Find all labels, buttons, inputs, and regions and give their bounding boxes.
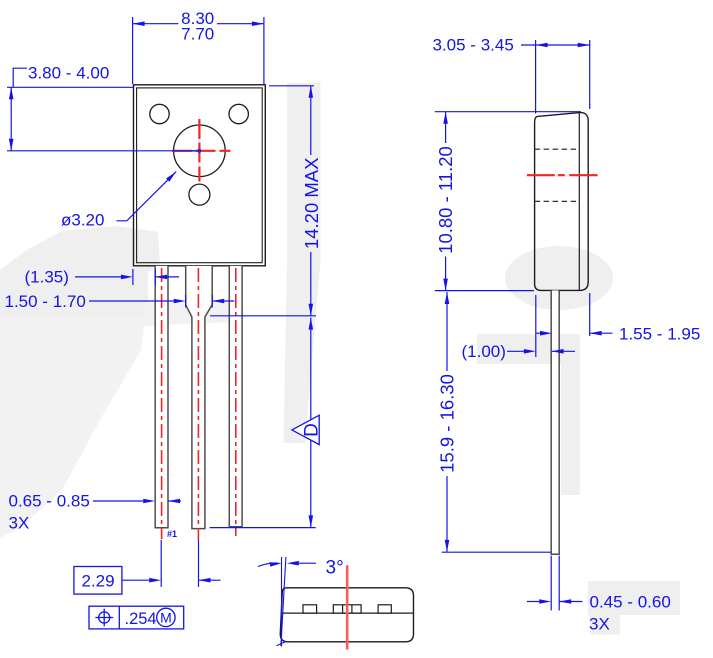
red centerline lead 3 <box>235 268 237 536</box>
dimension 3.80-4.00 hole position <box>7 64 134 151</box>
dimension (1.35) lead offset <box>25 267 180 286</box>
svg-text:(1.00): (1.00) <box>462 342 506 361</box>
svg-text:#1: #1 <box>167 529 177 539</box>
dimension 0.45-0.60 lead width 3X <box>527 556 671 634</box>
side view hidden line upper <box>535 148 580 150</box>
lead 3 (right) <box>229 266 242 527</box>
svg-text:1.55 - 1.95: 1.55 - 1.95 <box>619 325 700 344</box>
watermark patch near 14.20 dim <box>284 83 321 443</box>
dimension (1.00) lead setback <box>462 295 576 361</box>
lead 2 (center, tapered) <box>186 266 213 529</box>
lead 1 (left) <box>155 266 168 528</box>
dimension 0.65-0.85 lead thickness 3X <box>9 492 182 533</box>
dimension 1.50-1.70 center lead width <box>5 292 235 311</box>
side view lead <box>551 290 559 554</box>
svg-text:.254: .254 <box>125 610 157 628</box>
bottom view body outline <box>280 588 413 642</box>
leader and label for hole diameter 3.20 <box>61 172 176 230</box>
red centerline vertical of central hole <box>198 119 200 182</box>
blue extension line to hole center <box>7 149 201 153</box>
svg-text:3°: 3° <box>326 558 344 579</box>
lower small hole <box>189 184 210 205</box>
dimension 1.55-1.95 lead to face <box>537 325 701 344</box>
angle dimension 3 deg <box>258 558 344 579</box>
dimension 10.80-11.20 body height <box>435 112 581 291</box>
red centerline lead 2 <box>197 268 199 540</box>
watermark blob under side view <box>505 246 613 310</box>
mounting hole top-right <box>229 104 248 123</box>
watermark band under lead roots <box>142 302 240 326</box>
side view hidden line lower <box>535 200 580 202</box>
watermark swash left lower tail <box>0 318 145 538</box>
watermark band right of side lead <box>477 334 580 495</box>
svg-text:M: M <box>160 610 172 626</box>
pin 1 label <box>167 529 177 539</box>
dimension 8.30/7.70 body width <box>133 9 264 84</box>
feature control frame .254 M <box>89 606 184 629</box>
bottom view parting line <box>281 612 414 614</box>
svg-text:3.05 - 3.45: 3.05 - 3.45 <box>433 36 514 55</box>
central mounting hole <box>174 125 226 177</box>
front view body inner outline <box>137 88 263 263</box>
dimension 2.29 lead pitch <box>74 540 221 594</box>
svg-text:D: D <box>302 423 323 437</box>
watermark swash left <box>0 226 160 318</box>
svg-text:(1.35): (1.35) <box>25 267 69 286</box>
svg-text:10.80 - 11.20: 10.80 - 11.20 <box>435 146 456 254</box>
bottom view 3 deg draft line <box>277 557 287 646</box>
svg-text:3X: 3X <box>589 615 610 634</box>
svg-text:3.80 - 4.00: 3.80 - 4.00 <box>28 64 109 83</box>
bottom view red centerline <box>346 565 349 649</box>
side view red centerline <box>527 174 598 176</box>
dimension 15.9-16.30 lead length <box>437 292 552 552</box>
bottom view lead 1 section <box>303 605 317 613</box>
dimension D lead length with datum triangle <box>210 318 323 528</box>
svg-text:15.9 - 16.30: 15.9 - 16.30 <box>437 374 458 473</box>
svg-text:0.45 - 0.60: 0.45 - 0.60 <box>590 593 671 612</box>
mounting hole top-left <box>150 104 169 123</box>
svg-text:ø3.20: ø3.20 <box>61 211 104 230</box>
bottom view lead 3 section <box>378 605 391 613</box>
svg-text:14.20 MAX: 14.20 MAX <box>301 158 322 250</box>
svg-text:3X: 3X <box>9 514 30 533</box>
bottom view vertical reference line <box>281 557 283 647</box>
svg-text:7.70: 7.70 <box>181 25 214 44</box>
red centerline lead 1 <box>161 268 163 539</box>
side view body outline <box>535 113 589 291</box>
bottom view center lead section <box>333 605 361 613</box>
svg-text:1.50 - 1.70: 1.50 - 1.70 <box>5 292 86 311</box>
dimension 3.05-3.45 body thickness <box>433 36 590 337</box>
svg-text:0.65 - 0.85: 0.65 - 0.85 <box>9 492 90 511</box>
watermark block behind 0.45-0.60 text <box>588 581 680 635</box>
svg-text:2.29: 2.29 <box>81 572 114 591</box>
dimension 14.20 MAX overall height <box>210 86 322 316</box>
red centerline horizontal of central hole <box>172 150 231 152</box>
side view front face line <box>578 113 580 291</box>
front view body outer outline <box>134 85 266 266</box>
